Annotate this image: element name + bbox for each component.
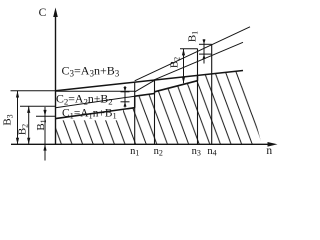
svg-text:n1: n1 bbox=[130, 146, 139, 158]
svg-text:n: n bbox=[266, 145, 272, 157]
svg-text:n2: n2 bbox=[154, 146, 163, 158]
svg-text:n4: n4 bbox=[207, 146, 216, 158]
svg-text:n3: n3 bbox=[192, 146, 201, 158]
svg-text:С: С bbox=[39, 7, 47, 19]
